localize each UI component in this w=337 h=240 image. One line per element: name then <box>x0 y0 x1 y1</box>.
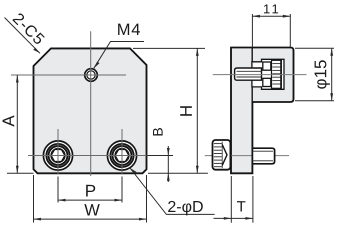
svg-text:M4: M4 <box>117 21 142 39</box>
svg-text:H: H <box>177 105 196 117</box>
svg-text:T: T <box>237 198 246 215</box>
svg-text:φ15: φ15 <box>311 60 330 90</box>
svg-text:A: A <box>0 115 18 127</box>
svg-text:11: 11 <box>263 1 281 16</box>
svg-text:P: P <box>85 181 96 200</box>
svg-text:W: W <box>84 201 100 219</box>
svg-text:B: B <box>150 127 166 136</box>
svg-text:2-φD: 2-φD <box>167 199 203 216</box>
